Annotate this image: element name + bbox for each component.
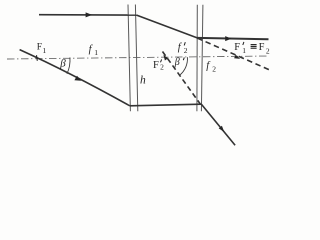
- optical axis: [7, 56, 268, 59]
- svg-text:F: F: [259, 42, 265, 53]
- dashed backward extension through F'2: [163, 52, 201, 105]
- ray through front focus F1 (oblique, lower left): [20, 50, 130, 106]
- svg-text:β: β: [59, 58, 66, 70]
- svg-text:2: 2: [212, 64, 216, 73]
- final refracted ray after lens 2 (steep descending): [201, 104, 235, 145]
- lens 2 back principal plane: [201, 5, 203, 112]
- lens 1 front principal plane: [128, 5, 130, 112]
- angle arc beta prime: [180, 57, 188, 75]
- svg-text:1: 1: [242, 46, 246, 55]
- angle arc beta: [67, 57, 70, 73]
- arrow on incident ray: [86, 12, 93, 17]
- arrow on dashed continuation at axis crossing: [234, 55, 240, 59]
- incident ray parallel to axis (top): [39, 14, 137, 16]
- lens 1 back principal plane: [135, 5, 137, 112]
- parallel segment between lenses (bottom): [130, 104, 202, 106]
- svg-text:β: β: [174, 57, 180, 68]
- exit ray parallel to axis after lens 2: [197, 38, 268, 39]
- arrow on final ray: [219, 126, 225, 132]
- svg-text:F: F: [153, 60, 159, 71]
- svg-text:1: 1: [42, 46, 46, 55]
- svg-text:2: 2: [160, 63, 164, 72]
- arrow on exit ray: [225, 36, 231, 41]
- identity sign (triple bar): [251, 44, 257, 46]
- focal point F1 tick on axis: [36, 55, 39, 61]
- lens 2 front principal plane: [196, 5, 198, 112]
- svg-text:1: 1: [94, 48, 98, 57]
- refracted ray between lenses (descending): [137, 15, 198, 38]
- svg-text:F: F: [37, 43, 42, 53]
- svg-text:F: F: [234, 42, 240, 53]
- svg-text:2: 2: [184, 46, 188, 55]
- svg-text:h: h: [140, 75, 146, 87]
- arrow on F1 ray: [74, 76, 81, 81]
- arrow on backward extension near axis: [163, 55, 168, 61]
- dashed virtual continuation through F2: [197, 38, 272, 71]
- svg-text:2: 2: [266, 46, 270, 55]
